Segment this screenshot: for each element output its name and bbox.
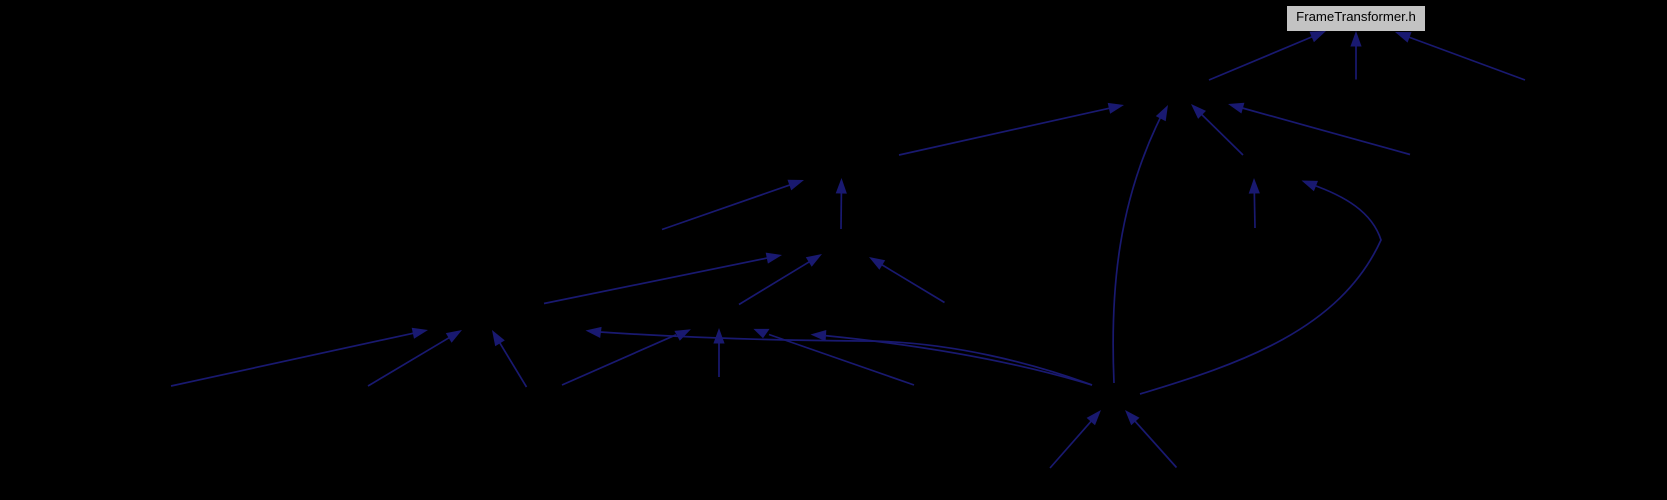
edge E18 into node5 [368, 330, 462, 386]
edge E20 node5 to node4 [544, 253, 782, 304]
edge E23 vertical into node6 [713, 328, 724, 377]
edge E9 node4 to node3 vertical [836, 178, 847, 229]
edge E13 curve node7 to node6b with left head [811, 330, 1093, 385]
edge E15 bottom-right into node7 [1125, 410, 1177, 468]
edge E21 long curve node7 to node5 right corner [586, 327, 1093, 385]
edge E7 right node to node2 [1228, 103, 1410, 155]
edge E26 node6 to node4 [739, 254, 822, 305]
edge E3 right node to FrameTransformer.h [1395, 32, 1525, 80]
edge E19 into node5 [492, 330, 527, 387]
edge E2 vertical into FrameTransformer.h [1350, 31, 1361, 80]
edge E28 from node below into node6 area with down-triangle head [753, 329, 914, 385]
edge E14 bottom-left into node7 [1050, 410, 1101, 468]
edge E22 diagonal into node6 area with down-triangle head [562, 329, 691, 385]
edge E1 node2 to FrameTransformer.h [1209, 31, 1326, 80]
edge E4 node3 to node2 [899, 103, 1124, 155]
edge E12 big curve node7 to node8 [1140, 181, 1381, 395]
edge E11 vertical into node8 [1249, 178, 1260, 228]
edge E8 into node3 bottom-left [662, 180, 804, 230]
edge E6 node8 to node2 [1191, 104, 1243, 155]
edge E27 into node4 bottom-right [869, 257, 945, 303]
svg-text:FrameTransformer.h: FrameTransformer.h [1296, 9, 1416, 24]
edge E17 long left into node5 [171, 328, 428, 386]
node FrameTransformer.h (highlighted box) [1287, 6, 1425, 31]
edge E5 curve node7 to node2 [1113, 105, 1168, 383]
